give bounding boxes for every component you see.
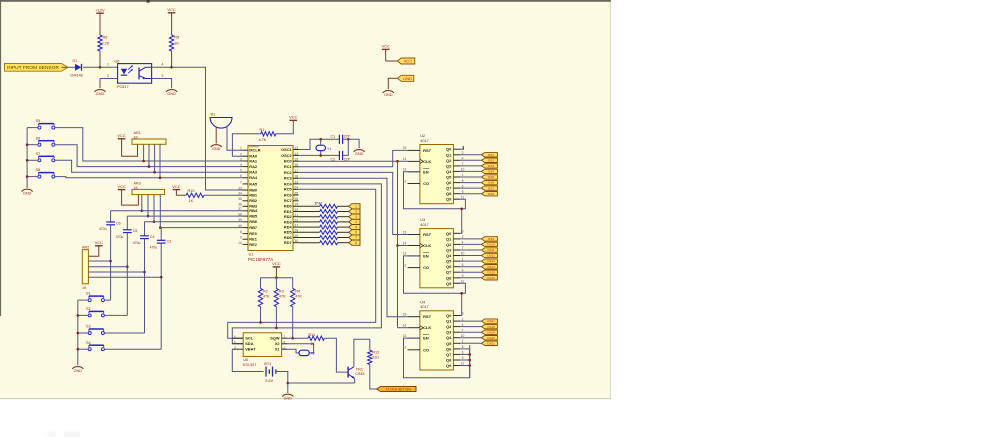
ground below U6 pin3 <box>166 90 177 96</box>
svg-text:RST: RST <box>423 314 432 319</box>
wire AR3 pin4 <box>153 195 155 222</box>
wire C5 to S2 net <box>126 233 128 316</box>
svg-text:RB2: RB2 <box>249 198 258 203</box>
svg-text:SDA: SDA <box>245 341 253 346</box>
wire opto output to RB0 <box>172 67 243 190</box>
svg-text:GND: GND <box>23 192 32 196</box>
svg-text:OSC1: OSC1 <box>281 147 292 152</box>
wire crystal bottom leg <box>320 151 322 156</box>
microcontroller U1 PIC16F877A <box>238 146 298 262</box>
junction node R5/U6 out <box>170 66 173 69</box>
wire S1 left <box>78 299 88 301</box>
svg-text:S4: S4 <box>86 341 91 345</box>
svg-text:VCC: VCC <box>117 133 126 138</box>
svg-text:B1: B1 <box>211 112 216 116</box>
svg-text:TR1: TR1 <box>356 367 363 371</box>
svg-text:7: 7 <box>355 236 357 240</box>
svg-text:RC1: RC1 <box>284 164 293 169</box>
junction S2 on bus <box>77 314 80 317</box>
net label DS5 <box>481 175 497 179</box>
switch S6 <box>36 136 55 146</box>
wire VCC stem <box>275 267 277 278</box>
wire U3 EN loop <box>404 256 466 293</box>
svg-text:C3: C3 <box>167 240 172 244</box>
svg-text:Q9: Q9 <box>446 363 452 368</box>
wire tag to D1 <box>62 66 76 68</box>
wire resistor to connector pin 3 <box>338 216 349 218</box>
svg-text:R2: R2 <box>263 290 268 294</box>
svg-text:DS16: DS16 <box>487 276 495 280</box>
power VCC for AR1 <box>117 133 126 139</box>
svg-text:470u: 470u <box>99 227 107 231</box>
svg-text:Q4: Q4 <box>446 335 452 340</box>
svg-text:4017: 4017 <box>420 139 428 143</box>
svg-text:X2: X2 <box>275 341 281 346</box>
wire clock bus vertical <box>397 161 399 328</box>
svg-text:27: 27 <box>294 224 298 228</box>
switch S3 <box>86 325 104 335</box>
junction VCC rail <box>275 276 278 279</box>
svg-text:6: 6 <box>240 174 242 178</box>
svg-text:S3: S3 <box>86 325 91 329</box>
svg-text:DS19: DS19 <box>487 330 495 334</box>
wire C2 to top rail <box>343 139 349 155</box>
switch S5 <box>36 119 55 129</box>
svg-text:Q7: Q7 <box>446 186 452 191</box>
svg-text:Q1: Q1 <box>446 152 452 157</box>
svg-text:RC5: RC5 <box>284 187 293 192</box>
svg-text:S6: S6 <box>36 136 41 140</box>
junction AR1 on RA1 <box>142 160 145 163</box>
svg-text:Q2: Q2 <box>446 242 452 247</box>
wire U2 Q4 to tag <box>460 170 481 172</box>
wire U6 pin3 <box>152 79 172 89</box>
svg-text:47K: 47K <box>279 295 286 299</box>
svg-text:14: 14 <box>403 324 407 328</box>
wire resistor to connector pin 5 <box>338 226 349 228</box>
svg-text:S7: S7 <box>36 152 41 156</box>
wire AR2 pin2 row <box>88 260 110 262</box>
svg-text:DS12: DS12 <box>487 254 495 258</box>
svg-text:GND: GND <box>74 369 83 373</box>
wire AR2 pin5 row <box>88 276 161 278</box>
svg-text:17: 17 <box>294 169 298 173</box>
switch S1 <box>86 292 104 302</box>
wire OSC1 to top rail <box>299 139 340 149</box>
svg-text:DS21: DS21 <box>487 341 495 345</box>
wire S6 left <box>27 144 38 146</box>
junction S7 on bus <box>26 159 29 162</box>
buzzer B1 <box>210 112 232 128</box>
svg-text:35: 35 <box>238 197 242 201</box>
svg-text:RB1: RB1 <box>249 193 258 198</box>
wire resistor to connector pin 7 <box>338 237 349 239</box>
power VCC for AR3 <box>117 184 126 190</box>
wire X1 pin loop <box>282 349 299 353</box>
wire pullup rail <box>261 277 293 279</box>
svg-text:Q2: Q2 <box>446 158 452 163</box>
svg-text:47K: 47K <box>295 295 302 299</box>
net label DS10 <box>481 242 497 246</box>
wire VCC flag to tag <box>386 49 398 61</box>
wire U4 Q7 tie <box>460 353 470 355</box>
svg-text:DS3: DS3 <box>488 164 494 168</box>
wire S6 to RA2 row <box>55 145 243 167</box>
wire RD6 to resistor <box>299 237 320 239</box>
svg-text:CLK: CLK <box>423 325 431 330</box>
svg-text:Q7: Q7 <box>446 352 452 357</box>
wire C3 to S4 net <box>160 243 162 349</box>
svg-text:2: 2 <box>355 210 357 214</box>
svg-text:GND: GND <box>212 147 221 151</box>
svg-text:DS18: DS18 <box>487 325 495 329</box>
svg-text:S8: S8 <box>36 168 41 172</box>
wire RB6 to C4 <box>144 222 146 236</box>
wire GND tag to ground <box>388 78 397 89</box>
resistor R3 <box>274 288 286 306</box>
svg-text:13: 13 <box>294 146 298 150</box>
wire RD7 to resistor <box>299 242 320 244</box>
svg-text:1K: 1K <box>134 136 139 140</box>
wire U3 Q5 to tag <box>460 260 481 262</box>
svg-text:DS4: DS4 <box>488 170 494 174</box>
wire AR1 pin3 <box>148 144 150 166</box>
crystal Y1 <box>316 145 331 151</box>
capacitor C5 <box>116 229 138 239</box>
power VCC for R10 <box>172 184 181 190</box>
svg-text:1K: 1K <box>134 186 139 190</box>
svg-text:6: 6 <box>355 231 357 235</box>
wire U4 tie vertical <box>469 349 471 378</box>
wire battery minus <box>276 372 288 394</box>
svg-text:EN: EN <box>423 169 429 174</box>
wire U2 Q3 to tag <box>460 165 481 167</box>
switch S7 <box>36 152 55 162</box>
svg-text:RA3: RA3 <box>249 170 258 175</box>
wire AR3 pin5 <box>159 195 161 228</box>
resistor 47 ohm on RD5 <box>320 230 338 234</box>
junction node D1/R6/U6 <box>99 66 102 69</box>
svg-text:DS13: DS13 <box>487 259 495 263</box>
junction S4 on bus <box>77 348 80 351</box>
svg-text:C6: C6 <box>116 221 121 225</box>
junction U4 Q0 on U3 loop <box>460 292 463 295</box>
wire VBAT to battery <box>232 349 263 371</box>
resistor R6 <box>98 35 110 51</box>
net label INPUT FROM SENSOR <box>5 63 68 71</box>
svg-text:13: 13 <box>403 334 407 338</box>
junction U3 Q0 on U2 loop <box>460 208 463 211</box>
junction crystal top <box>319 138 322 141</box>
wire RB6 row <box>145 221 243 223</box>
svg-text:VCC: VCC <box>172 184 181 189</box>
wire U2 EN loop <box>404 172 466 209</box>
svg-text:GND: GND <box>403 76 412 81</box>
svg-text:DS1307: DS1307 <box>243 363 257 367</box>
svg-text:Q1: Q1 <box>446 319 452 324</box>
svg-text:1K: 1K <box>189 199 194 203</box>
svg-text:Q3: Q3 <box>446 330 452 335</box>
ground for S1-S4 <box>72 367 83 373</box>
capacitor C4 <box>133 235 155 245</box>
svg-text:DS17: DS17 <box>487 319 495 323</box>
svg-text:7: 7 <box>240 180 242 184</box>
wire VCC to AR2 common <box>88 246 98 256</box>
svg-text:Q9: Q9 <box>446 281 452 286</box>
svg-text:GND: GND <box>284 397 293 401</box>
svg-text:CLK: CLK <box>423 243 431 248</box>
junction S3 on bus <box>77 332 80 335</box>
resistor 47 ohm on RD0 <box>320 204 338 208</box>
svg-text:Q5: Q5 <box>446 175 452 180</box>
svg-text:RE0: RE0 <box>249 231 257 236</box>
svg-text:EN: EN <box>423 336 429 341</box>
svg-text:15: 15 <box>403 313 407 317</box>
svg-text:1N4148: 1N4148 <box>70 74 83 78</box>
capacitor C3 <box>150 240 172 250</box>
svg-text:Q6: Q6 <box>446 264 452 269</box>
label 8x47 <box>315 201 322 205</box>
svg-text:DS10: DS10 <box>487 243 495 247</box>
svg-text:Q3: Q3 <box>446 163 452 168</box>
svg-text:40: 40 <box>238 224 242 228</box>
wire B1 left leg to ground <box>215 127 217 144</box>
svg-text:RC6: RC6 <box>284 192 293 197</box>
power VCC for R5 <box>167 7 176 35</box>
wire R6 to node <box>99 51 101 67</box>
wire RD5 to resistor <box>299 231 320 233</box>
switch S2 <box>86 307 104 317</box>
wire U6 pin4 to node <box>152 66 172 68</box>
connector pin 7 tag <box>349 235 360 240</box>
wire S2 left <box>78 314 88 316</box>
svg-text:33: 33 <box>238 186 242 190</box>
svg-text:DS8: DS8 <box>488 192 494 196</box>
connector pin 2 tag <box>349 209 360 214</box>
resistor 47 ohm on RD7 <box>320 241 338 245</box>
wire U3 Q6 to tag <box>460 266 481 268</box>
ground for oscillator <box>354 150 365 156</box>
svg-text:U6: U6 <box>115 59 120 63</box>
wire U2 Q7 to tag <box>460 187 481 189</box>
net label CLOCK SET SIG <box>377 386 416 391</box>
svg-text:RC4: RC4 <box>284 181 293 186</box>
svg-text:RB0: RB0 <box>249 187 257 192</box>
svg-text:29: 29 <box>294 234 298 238</box>
wire S8 left <box>27 176 38 178</box>
net label DS9 <box>481 237 497 241</box>
svg-text:13: 13 <box>403 168 407 172</box>
svg-text:Q2: Q2 <box>446 324 452 329</box>
resistor R11 <box>308 333 324 346</box>
svg-text:R1: R1 <box>260 128 265 132</box>
svg-text:U1: U1 <box>249 251 254 256</box>
svg-text:Q6: Q6 <box>446 180 452 185</box>
wire R1 to RA0 <box>232 134 260 156</box>
junction clock bus at U2 <box>396 160 399 163</box>
wire SQW to R11 <box>282 337 308 339</box>
junction AR3 on RB4 <box>141 210 144 213</box>
junction AR2/S3/C4 <box>143 271 146 274</box>
connector pin 4 tag <box>349 219 360 224</box>
svg-text:38: 38 <box>238 213 242 217</box>
wire AR2 pin4 row <box>88 271 144 273</box>
wire RB4 to C6 <box>110 211 112 222</box>
resistor array AR1 <box>132 131 166 144</box>
resistor R1 <box>259 128 276 142</box>
svg-text:4017: 4017 <box>420 305 428 309</box>
svg-text:1: 1 <box>240 147 242 151</box>
svg-text:15: 15 <box>403 146 407 150</box>
svg-text:Q0: Q0 <box>446 313 452 318</box>
svg-text:RB5: RB5 <box>249 214 258 219</box>
wire S2 right <box>104 314 127 316</box>
crystal X2 <box>299 350 315 355</box>
svg-text:220: 220 <box>372 356 378 360</box>
wire S5 left <box>27 127 38 129</box>
svg-text:AR2: AR2 <box>82 246 89 250</box>
svg-text:25: 25 <box>294 191 298 195</box>
net label DS11 <box>481 248 497 252</box>
svg-text:VCC: VCC <box>404 59 413 64</box>
svg-text:DS14: DS14 <box>487 265 495 269</box>
svg-text:R10: R10 <box>188 189 195 193</box>
svg-text:Q4: Q4 <box>446 253 452 258</box>
net label GND <box>397 75 413 81</box>
net label DS16 <box>481 276 497 280</box>
wire U4 Q9 tie <box>460 365 470 367</box>
battery BT1 <box>264 362 276 383</box>
wire U3 Q0 to U2 loop <box>460 209 462 234</box>
junction AR1 on RA2 <box>148 165 151 168</box>
junction AR2/S1/C6 <box>109 260 112 263</box>
svg-text:2.2K: 2.2K <box>102 42 110 46</box>
power +12V <box>95 7 105 35</box>
net label DS1 <box>481 153 497 157</box>
ground for battery <box>282 394 293 400</box>
wire U4 Q8 tie <box>460 359 470 361</box>
pin number 2 of U6 <box>107 74 109 78</box>
junction clock bus at U3 <box>396 244 399 247</box>
wire U3 Q4 to tag <box>460 255 481 257</box>
wire U3 CLK row <box>398 245 408 247</box>
svg-text:GND: GND <box>355 152 364 156</box>
svg-text:U5: U5 <box>243 358 248 362</box>
wire U2 Q0 stub <box>460 146 464 149</box>
svg-text:VCC: VCC <box>117 184 126 189</box>
wire resistor to connector pin 6 <box>338 231 349 233</box>
wire VCC to AR1 common <box>122 139 138 156</box>
svg-text:Q8: Q8 <box>446 275 452 280</box>
svg-text:Q1: Q1 <box>446 236 452 241</box>
pin number 4 of U6 <box>162 63 164 67</box>
svg-text:21: 21 <box>294 213 298 217</box>
resistor array AR2 <box>82 246 89 290</box>
wire pin2 to ground <box>99 79 101 89</box>
svg-text:3: 3 <box>240 157 242 161</box>
svg-text:SCL: SCL <box>245 336 253 341</box>
power VCC for R1 <box>289 115 298 121</box>
wire S1-S4 ground bus <box>77 300 79 365</box>
svg-text:RA2: RA2 <box>249 164 258 169</box>
svg-text:RB4: RB4 <box>249 208 258 213</box>
wire resistor to connector pin 8 <box>338 242 349 244</box>
wire RD3 to resistor <box>299 221 320 223</box>
counter U3 4017 <box>403 218 465 288</box>
resistor R4 <box>291 288 303 306</box>
svg-text:24: 24 <box>294 186 298 190</box>
svg-text:RC3: RC3 <box>284 176 293 181</box>
svg-text:AR3: AR3 <box>134 182 141 186</box>
wire S1 right <box>104 299 110 301</box>
svg-text:GND: GND <box>384 93 393 97</box>
svg-text:15: 15 <box>403 230 407 234</box>
svg-text:Q8: Q8 <box>446 358 452 363</box>
svg-text:PC817: PC817 <box>117 85 129 89</box>
wire U3 Q8 to tag <box>460 277 481 279</box>
svg-text:C5: C5 <box>133 229 138 233</box>
svg-text:1K: 1K <box>174 42 179 46</box>
wire RB4 row <box>111 210 243 212</box>
svg-text:INPUT FROM SENSOR: INPUT FROM SENSOR <box>7 65 59 70</box>
svg-text:GND: GND <box>167 92 176 96</box>
RTC U5 DS1307 <box>232 333 287 367</box>
svg-text:8: 8 <box>355 241 357 245</box>
wire U2 CO stub <box>408 183 420 185</box>
svg-text:Q4: Q4 <box>446 169 452 174</box>
junction U4 Q7 tie <box>468 353 471 356</box>
svg-text:RA1: RA1 <box>249 158 258 163</box>
net label DS13 <box>481 259 497 263</box>
wire S7 to RA3 row <box>55 160 243 172</box>
svg-text:RA5: RA5 <box>249 181 258 186</box>
junction S8 on bus <box>26 175 29 178</box>
svg-text:Q3: Q3 <box>446 248 452 253</box>
svg-text:1K: 1K <box>82 286 87 290</box>
wire RC4 to SDA <box>232 184 381 344</box>
svg-text:U2: U2 <box>420 134 425 138</box>
junction AR1 on RA3 <box>153 171 156 174</box>
svg-text:9: 9 <box>240 236 242 240</box>
svg-text:15: 15 <box>294 158 298 162</box>
wire X2 pin loop <box>282 344 314 353</box>
wire AR1 pin5 <box>159 144 161 178</box>
svg-text:470u: 470u <box>133 241 141 245</box>
wire S5 to RA1 row <box>55 128 243 161</box>
svg-text:20: 20 <box>294 208 298 212</box>
svg-text:3: 3 <box>162 74 164 78</box>
wire S7 left <box>27 159 38 161</box>
svg-text:Q6: Q6 <box>446 346 452 351</box>
svg-text:4: 4 <box>162 63 164 67</box>
resistor 47 ohm on RD3 <box>320 220 338 224</box>
wire RD0 to resistor <box>299 205 320 207</box>
svg-text:C4: C4 <box>150 235 155 239</box>
junction R4 on SQW <box>291 337 294 340</box>
wire R3 to SDA row <box>275 307 277 328</box>
resistor 47 ohm on RD2 <box>320 215 338 219</box>
net label DS3 <box>481 164 497 168</box>
wire resistor to connector pin 2 <box>338 211 349 213</box>
connector pin 5 tag <box>349 225 360 230</box>
wire RC1 to U2 RST <box>299 150 408 166</box>
connector pin 3 tag <box>349 214 360 219</box>
svg-text:4017: 4017 <box>420 223 428 227</box>
wire node to U6 pin1 <box>100 66 118 68</box>
svg-text:Q7: Q7 <box>446 270 452 275</box>
resistor R12 <box>368 350 380 364</box>
svg-text:X2: X2 <box>311 352 315 356</box>
